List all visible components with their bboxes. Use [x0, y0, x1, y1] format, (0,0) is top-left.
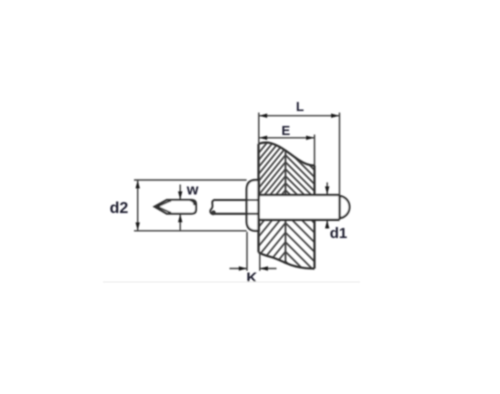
- dimension K arrows: [230, 268, 247, 270]
- plate bottom break edge: [259, 252, 315, 268]
- stem break squiggle: [210, 200, 215, 214]
- tip cone base marks: [169, 200, 172, 203]
- dimension L extension lines: [258, 113, 260, 144]
- svg-text:d1: d1: [330, 225, 348, 242]
- plate interface joint line upper: [285, 150, 287, 195]
- mandrel stem: [213, 199, 258, 201]
- tip inner cone lines: [158, 201, 171, 213]
- mandrel head dome: [340, 196, 350, 218]
- svg-text:K: K: [246, 270, 257, 287]
- hatching upper plates: [250, 120, 323, 234]
- rivet head flange: [247, 180, 259, 231]
- rivet body tube: [259, 196, 340, 219]
- dimension E line: [259, 137, 315, 139]
- dimension L line: [259, 115, 340, 117]
- plate top break edge: [259, 142, 315, 165]
- plate left face / head seat: [257, 144, 259, 252]
- plate right face lower: [313, 220, 315, 269]
- svg-text:w: w: [186, 181, 199, 198]
- dimension K extension lines: [246, 232, 248, 271]
- svg-text:E: E: [281, 123, 290, 138]
- hatching lower plates: [250, 194, 323, 305]
- tip apex wedge: [154, 204, 159, 209]
- dimension w arrows: [179, 185, 181, 200]
- faint artifact line: [103, 281, 360, 283]
- mandrel break-off tip piece: [155, 200, 196, 214]
- svg-text:d2: d2: [110, 200, 129, 217]
- tip end notch: [190, 200, 194, 205]
- svg-text:L: L: [296, 99, 304, 114]
- plate interface joint line lower: [285, 220, 287, 264]
- dimension d2 extension lines: [134, 179, 247, 181]
- dimension d1 arrows: [326, 182, 328, 194]
- rivet body end face: [338, 195, 340, 220]
- dimension d2 line: [137, 180, 139, 231]
- plate right face upper: [313, 166, 315, 196]
- dimension E extension line: [314, 135, 316, 166]
